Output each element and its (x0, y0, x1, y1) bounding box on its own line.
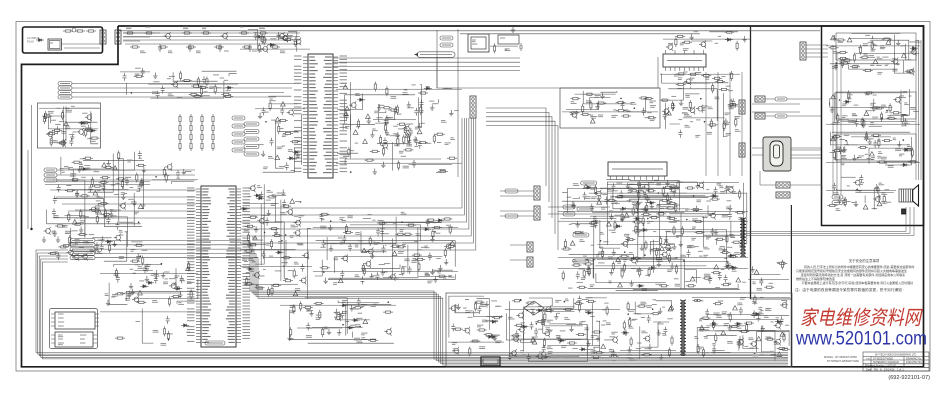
capacitor (96, 203, 100, 211)
resistor (163, 167, 165, 177)
ground (381, 269, 385, 275)
resistor (188, 261, 190, 271)
resistor (248, 244, 258, 246)
wire (490, 45, 518, 47)
value label (183, 27, 188, 29)
wire (760, 184, 776, 186)
wire (67, 121, 98, 123)
wire (403, 242, 419, 244)
value label (112, 215, 117, 217)
value label (70, 175, 76, 177)
value label (495, 341, 501, 343)
value label (87, 168, 92, 170)
ground (843, 146, 847, 152)
resistor (130, 46, 140, 48)
wire (176, 268, 179, 286)
resistor (623, 263, 625, 273)
connector P13 (776, 192, 790, 198)
ground (324, 278, 328, 284)
resistor (512, 300, 522, 302)
value label (468, 316, 473, 318)
value label (667, 249, 672, 251)
capacitor (626, 235, 630, 243)
wire (54, 198, 103, 207)
resistor (85, 127, 87, 137)
value label (58, 321, 64, 323)
value label (571, 102, 577, 104)
capacitor (383, 138, 387, 146)
value label (407, 107, 414, 109)
transistor (278, 32, 285, 40)
value label (64, 167, 70, 169)
value label (719, 186, 723, 188)
diode (225, 86, 233, 89)
value label (72, 230, 78, 232)
wire (272, 103, 298, 105)
value label (306, 336, 312, 338)
wire (659, 200, 661, 259)
warning mark (616, 257, 621, 261)
value label (612, 190, 618, 192)
value label (252, 50, 257, 52)
resistor (590, 100, 592, 110)
value label (98, 239, 103, 241)
resistor (866, 131, 868, 141)
transistor (388, 273, 395, 281)
capacitor (282, 200, 286, 208)
value label (119, 234, 124, 236)
resistor (594, 352, 604, 354)
ground (327, 329, 331, 335)
value label (706, 189, 709, 191)
wire bus (486, 121, 555, 234)
wire (575, 93, 616, 95)
warning mark (597, 200, 602, 204)
wire (177, 301, 197, 304)
value label (250, 270, 254, 272)
resistor (629, 190, 639, 192)
value label (696, 200, 701, 202)
value label (355, 233, 360, 235)
value label (244, 261, 248, 263)
wire (345, 159, 441, 165)
capacitor (407, 138, 411, 146)
transistor (384, 328, 391, 336)
resistor (189, 93, 199, 95)
value label (769, 282, 774, 284)
ground (595, 103, 599, 109)
value label (111, 296, 115, 298)
value label (65, 233, 70, 235)
value label (610, 196, 614, 198)
connector P902 (115, 30, 121, 44)
value label (400, 230, 404, 232)
wire (229, 74, 237, 76)
capacitor (57, 184, 61, 192)
resistor (660, 236, 662, 246)
capacitor (542, 345, 546, 353)
wire (746, 207, 914, 236)
wire (335, 257, 443, 273)
wire bus (95, 249, 788, 362)
value label (51, 119, 56, 121)
value label (872, 117, 878, 119)
transistor (709, 212, 716, 220)
transistor (510, 349, 517, 357)
capacitor (115, 222, 119, 230)
wire (276, 121, 279, 168)
diode (347, 326, 355, 329)
ground (911, 46, 915, 52)
value label (615, 203, 620, 205)
capacitor (583, 192, 587, 200)
capacitor (718, 272, 722, 280)
resistor (62, 110, 64, 120)
value label (379, 264, 385, 266)
transistor (642, 183, 649, 191)
wire (828, 98, 830, 105)
resistor (641, 213, 651, 215)
ground (896, 40, 900, 46)
value label (724, 123, 730, 125)
resistor (645, 240, 647, 250)
value label (436, 232, 441, 234)
ground (106, 300, 110, 306)
value label (907, 123, 910, 125)
wire (865, 110, 875, 112)
resistor (577, 286, 587, 288)
resistor (248, 216, 258, 218)
wire (449, 296, 484, 337)
resistor (715, 80, 725, 82)
value label (883, 162, 888, 164)
capacitor (376, 228, 380, 236)
resistor (212, 141, 214, 151)
resistor (115, 268, 117, 278)
value label (694, 82, 698, 84)
warning mark (624, 213, 629, 217)
value label (611, 203, 617, 205)
value label (355, 275, 360, 277)
value label (401, 155, 406, 157)
transistor (543, 329, 550, 337)
value label (629, 252, 633, 254)
IC U2 microcontroller (294, 54, 347, 178)
value label (379, 222, 383, 224)
transistor (570, 111, 577, 119)
value label (342, 312, 347, 314)
value label (683, 71, 687, 73)
wire (126, 291, 196, 300)
transistor (281, 34, 288, 42)
value label (699, 209, 703, 211)
wire (848, 39, 890, 43)
warning mark (831, 94, 836, 98)
junction (658, 192, 660, 194)
ground (153, 73, 157, 79)
value label (167, 78, 171, 80)
value label (425, 273, 430, 275)
value label (120, 292, 125, 294)
wire (841, 176, 856, 178)
warning mark (754, 270, 759, 274)
value label (358, 312, 362, 314)
transistor (46, 130, 53, 138)
value label (90, 140, 96, 142)
value label (887, 201, 891, 203)
resistor (621, 212, 623, 222)
value label (372, 240, 375, 242)
diode (424, 87, 432, 90)
bridge rectifier (524, 301, 544, 315)
value label (80, 342, 85, 344)
junction (264, 232, 266, 234)
value label (675, 284, 680, 286)
value label (425, 246, 430, 248)
wire (588, 284, 738, 289)
value label (671, 95, 676, 97)
transistor (299, 277, 306, 285)
value label (290, 306, 295, 308)
value label (306, 309, 311, 311)
ground (145, 276, 149, 282)
value label (62, 171, 65, 173)
value label (869, 138, 874, 140)
value label (355, 245, 359, 247)
warning mark (870, 152, 875, 156)
wire (851, 136, 891, 138)
value label (705, 78, 709, 80)
wire (39, 107, 100, 109)
wire (616, 290, 658, 292)
value label (873, 94, 877, 96)
value label (600, 232, 605, 234)
resistor (562, 271, 564, 281)
diode (710, 194, 718, 197)
value label (68, 168, 73, 170)
value label (683, 107, 689, 109)
resistor (179, 132, 181, 142)
ground (657, 261, 661, 267)
resistor (511, 335, 521, 337)
value label (426, 86, 430, 88)
value label (58, 317, 64, 319)
resistor (723, 121, 725, 131)
wire (869, 125, 882, 127)
resistor (384, 123, 386, 133)
wire (826, 123, 920, 125)
resistor (494, 43, 496, 53)
capacitor (75, 190, 79, 198)
resistor (353, 307, 363, 309)
wire (906, 44, 912, 60)
junction (95, 208, 97, 210)
ground (695, 182, 699, 188)
connector P901 (100, 30, 106, 44)
value label (690, 78, 695, 80)
resistor (163, 326, 165, 336)
value label (75, 239, 81, 241)
resistor (193, 95, 203, 97)
value label (690, 245, 696, 247)
resistor (201, 141, 203, 151)
resistor (272, 234, 282, 236)
resistor (701, 75, 711, 77)
wire (628, 184, 647, 186)
resistor (57, 142, 67, 144)
value label (134, 212, 139, 214)
wire (460, 33, 700, 35)
ground (485, 301, 489, 307)
diode (521, 325, 529, 328)
ground (75, 191, 79, 197)
value label (863, 44, 868, 46)
value label (463, 307, 467, 309)
capacitor (530, 322, 534, 330)
resistor (300, 301, 302, 311)
value label (585, 259, 591, 261)
resistor (838, 57, 848, 59)
wire (382, 223, 441, 242)
value label (339, 218, 344, 220)
value label (52, 231, 57, 233)
value label (901, 124, 907, 126)
resistor (403, 135, 405, 145)
value label (739, 218, 744, 220)
wire bus (95, 253, 788, 363)
value label (691, 238, 696, 240)
diode (36, 38, 44, 41)
transistor (544, 305, 551, 313)
wire bus (95, 241, 788, 360)
value label (172, 283, 177, 285)
value label (839, 62, 845, 64)
value label (668, 43, 673, 45)
wire (629, 181, 679, 211)
wire (47, 210, 141, 224)
value label (153, 330, 159, 332)
resistor (345, 224, 347, 234)
value label (720, 246, 725, 248)
wire (420, 85, 421, 128)
transistor (341, 254, 348, 262)
wire (336, 318, 370, 320)
resistor (881, 112, 883, 122)
resistor (711, 272, 721, 274)
transistor (452, 347, 459, 355)
resistor (591, 356, 601, 358)
wire (333, 65, 520, 67)
value label (615, 202, 618, 204)
transistor (907, 68, 914, 76)
wire (847, 141, 858, 145)
wire (377, 143, 408, 145)
resistor (396, 246, 406, 248)
resistor (609, 355, 619, 357)
ground (572, 202, 576, 208)
value label (841, 157, 847, 159)
wire (723, 93, 727, 137)
wire (280, 304, 396, 306)
resistor (136, 173, 138, 183)
wire (596, 273, 666, 282)
ground (742, 36, 746, 42)
capacitor (855, 119, 859, 127)
net label (832, 201, 843, 205)
value label (163, 282, 168, 284)
transistor (169, 282, 176, 290)
transistor (669, 186, 676, 194)
wire (48, 117, 98, 129)
value label (727, 246, 732, 248)
value label (152, 92, 158, 94)
value label (200, 85, 203, 87)
value label (598, 252, 604, 254)
resistor (635, 224, 637, 234)
value label (839, 119, 846, 121)
value label (89, 234, 95, 236)
value label (294, 215, 298, 217)
resistor (606, 306, 608, 316)
resistor (615, 196, 625, 198)
junction (155, 176, 157, 178)
resistor (883, 194, 885, 204)
value label (354, 338, 360, 340)
value label (591, 117, 597, 119)
diode (490, 320, 498, 323)
value label (609, 210, 613, 212)
value label (290, 170, 295, 172)
wire (637, 182, 739, 184)
mains plug box (481, 357, 500, 366)
wire (68, 210, 196, 212)
transistor (910, 48, 917, 56)
diode (352, 319, 360, 322)
value label (411, 84, 415, 86)
value label (871, 49, 876, 51)
wire (558, 220, 748, 222)
resistor (314, 302, 324, 304)
value label (437, 271, 441, 273)
ground (728, 205, 732, 211)
wire (625, 98, 646, 112)
resistor (676, 83, 686, 85)
wire (660, 73, 740, 75)
wire (442, 88, 452, 90)
resistor (612, 261, 614, 271)
capacitor (89, 184, 93, 192)
wire (875, 40, 909, 59)
ground (373, 169, 377, 175)
net label (58, 95, 72, 99)
ground (42, 237, 46, 243)
wire (418, 97, 420, 128)
capacitor (270, 138, 274, 146)
value label (667, 202, 671, 204)
resistor (583, 268, 585, 278)
value label (580, 240, 585, 242)
ground (830, 106, 834, 112)
resistor (278, 124, 280, 134)
thermistor (72, 28, 76, 32)
value label (58, 313, 64, 315)
wire (142, 249, 148, 251)
wire (750, 260, 780, 274)
resistor (728, 255, 738, 257)
wire (731, 221, 735, 238)
value label (585, 310, 591, 312)
wire (628, 208, 659, 210)
